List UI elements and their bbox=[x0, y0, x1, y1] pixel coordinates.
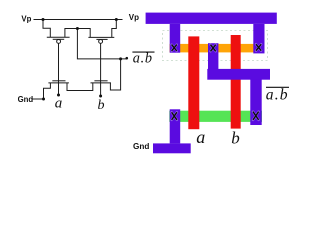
transistor P2 gate plate bbox=[96, 38, 107, 40]
svg-text:a: a bbox=[196, 127, 205, 147]
node dot output junction bbox=[119, 57, 122, 60]
svg-text:b: b bbox=[231, 128, 240, 147]
svg-text:a.b: a.b bbox=[266, 86, 289, 103]
transistor P1 gate plate bbox=[53, 38, 64, 40]
svg-text:b: b bbox=[98, 98, 105, 113]
transistor P2 channel bbox=[88, 36, 114, 38]
metal output to n-diff stub bbox=[250, 79, 261, 125]
metal right Vdd drop bbox=[253, 24, 264, 54]
svg-text:Gnd: Gnd bbox=[18, 95, 34, 104]
wire Gnd lead bbox=[33, 98, 44, 100]
node dot Gnd bbox=[42, 98, 45, 101]
transistor N1 gate plate bbox=[52, 80, 65, 82]
svg-text:Gnd: Gnd bbox=[133, 142, 149, 151]
node dot rail right bbox=[115, 18, 118, 21]
transistor P1 bubble bbox=[57, 39, 61, 43]
node dot output end bbox=[126, 57, 129, 60]
metal output drain drop bbox=[208, 43, 218, 79]
poly a (left red bar) bbox=[188, 36, 199, 129]
overline for a.b (layout) bbox=[266, 86, 289, 88]
metal output bar bbox=[207, 69, 270, 80]
contact X left (Vdd-pdiff) bbox=[172, 45, 177, 51]
p-diffusion bar bbox=[170, 44, 265, 53]
transistor P2 bubble bbox=[99, 39, 103, 43]
transistor N2 channel bbox=[91, 82, 112, 84]
svg-text:Vp: Vp bbox=[129, 13, 139, 22]
wire N1 source to Gnd bbox=[44, 83, 51, 99]
transistor N2 gate plate bbox=[94, 80, 107, 82]
node dot input b bbox=[99, 95, 102, 98]
wire input a vertical bbox=[58, 43, 60, 95]
wire N2 drain to output bbox=[110, 59, 120, 90]
contact X riser-ndiff bbox=[172, 112, 177, 120]
wire right PMOS source bbox=[112, 20, 117, 38]
dashed outline p-region bbox=[163, 31, 268, 61]
contact X stub-ndiff bbox=[253, 112, 259, 120]
transistor P1 channel bbox=[47, 36, 70, 38]
node dot PMOS common drain bbox=[76, 27, 79, 30]
metal left Vdd drop bbox=[170, 24, 181, 53]
wire input b vertical bbox=[100, 43, 102, 96]
metal Vdd rail (layout) bbox=[146, 13, 277, 24]
metal Gnd rail bbox=[153, 143, 191, 153]
node dot input a bbox=[57, 94, 60, 97]
transistor N1 channel bbox=[48, 82, 69, 84]
n-diffusion bar bbox=[169, 111, 262, 122]
poly b (right red bar) bbox=[231, 35, 241, 129]
wire N1-N2 series link bbox=[67, 83, 93, 91]
node dot rail left bbox=[42, 18, 45, 21]
svg-text:a.b: a.b bbox=[133, 51, 153, 67]
contact X mid (output-pdiff) bbox=[211, 45, 216, 52]
wire Vp rail (schematic) bbox=[34, 19, 123, 21]
wire PMOS drains node bar bbox=[65, 29, 90, 38]
metal Gnd riser bbox=[170, 109, 181, 143]
contact X right (Vdd-pdiff) bbox=[256, 44, 261, 51]
svg-text:Vp: Vp bbox=[21, 15, 31, 24]
wire left PMOS source bbox=[43, 20, 50, 38]
overline for a.b (schematic) bbox=[132, 51, 154, 53]
wire output node bbox=[77, 29, 126, 59]
svg-text:a: a bbox=[55, 96, 63, 112]
